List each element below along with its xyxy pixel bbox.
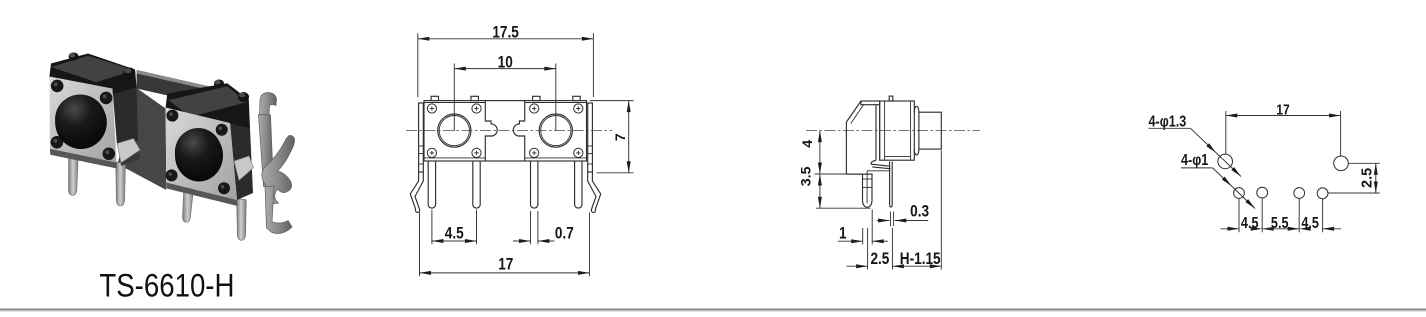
centerline button 2 (555, 63, 557, 131)
center notch right (513, 101, 524, 161)
right bent leg (588, 172, 601, 212)
svg-text:2.5: 2.5 (1360, 168, 1376, 188)
svg-text:0.3: 0.3 (910, 202, 929, 221)
svg-text:4.5: 4.5 (1301, 214, 1319, 231)
mounting hole left (1218, 154, 1233, 169)
svg-text:17.5: 17.5 (492, 23, 518, 42)
top tab (889, 96, 893, 101)
svg-text:4-φ1.3: 4-φ1.3 (1149, 112, 1187, 129)
button cap side (919, 112, 941, 149)
bracket slant (846, 101, 861, 122)
base block (867, 170, 890, 172)
dimension 1 (862, 228, 864, 245)
svg-text:2.5: 2.5 (870, 250, 889, 269)
dimension 17 (419, 213, 421, 277)
svg-text:H-1.15: H-1.15 (900, 250, 941, 269)
pin ext dashes (890, 212, 892, 227)
svg-text:4-φ1: 4-φ1 (1181, 151, 1208, 168)
plate hem (871, 160, 890, 166)
dimension 10 (454, 68, 556, 70)
button 2 (539, 114, 572, 147)
dimension 4 (819, 131, 821, 174)
dimension 2.5 (1349, 162, 1380, 164)
svg-text:1: 1 (839, 224, 847, 243)
centerline (806, 130, 980, 132)
svg-text:4: 4 (800, 140, 816, 148)
pins (428, 161, 435, 208)
svg-text:7: 7 (613, 133, 629, 141)
top tabs (431, 96, 438, 100)
svg-text:10: 10 (498, 53, 513, 72)
dimensions 4.5 5.5 4.5 (1238, 199, 1240, 233)
dimension 17 (1225, 111, 1227, 154)
svg-text:TS-6610-H: TS-6610-H (99, 269, 234, 305)
svg-text:17: 17 (498, 255, 513, 274)
dimension 17.5 (417, 33, 419, 97)
svg-text:0.7: 0.7 (555, 224, 574, 243)
pin holes (1234, 188, 1245, 199)
pcb layout drawing (1149, 101, 1380, 232)
svg-text:4.5: 4.5 (1241, 214, 1259, 231)
center notch left (485, 101, 497, 161)
dimension 4.5 (431, 210, 433, 245)
left bent leg (410, 172, 423, 212)
front view drawing (406, 23, 634, 276)
svg-text:3.5: 3.5 (798, 166, 814, 186)
right flange (588, 103, 593, 172)
bracket bottom (846, 173, 872, 175)
bracket leg (863, 174, 873, 201)
mounting hole right (1334, 156, 1349, 171)
dimension 7 (590, 100, 634, 102)
dimension 2.5 and H-1.15 (867, 228, 869, 270)
bracket left edge (845, 122, 847, 174)
svg-text:5.5: 5.5 (1271, 214, 1289, 231)
left flange (419, 103, 424, 172)
centerline button 1 (453, 63, 455, 131)
svg-text:17: 17 (1276, 101, 1289, 117)
dimension 0.7 (530, 211, 532, 244)
body side (880, 101, 915, 160)
centerline horizontal (406, 130, 612, 132)
dimension 0.3 (877, 220, 890, 222)
switch photo TS-6610-H (49, 53, 294, 241)
bottom rule (0, 308, 1426, 310)
cap ears (914, 106, 919, 112)
bracket top flange (861, 101, 880, 105)
dimension 3.5 (815, 173, 873, 175)
side view drawing (798, 96, 980, 270)
corner screws (427, 104, 436, 113)
switch pin side (890, 162, 893, 208)
front plate (875, 105, 877, 161)
button 1 (438, 114, 471, 147)
switch body outline (424, 101, 587, 161)
svg-text:4.5: 4.5 (445, 224, 464, 243)
